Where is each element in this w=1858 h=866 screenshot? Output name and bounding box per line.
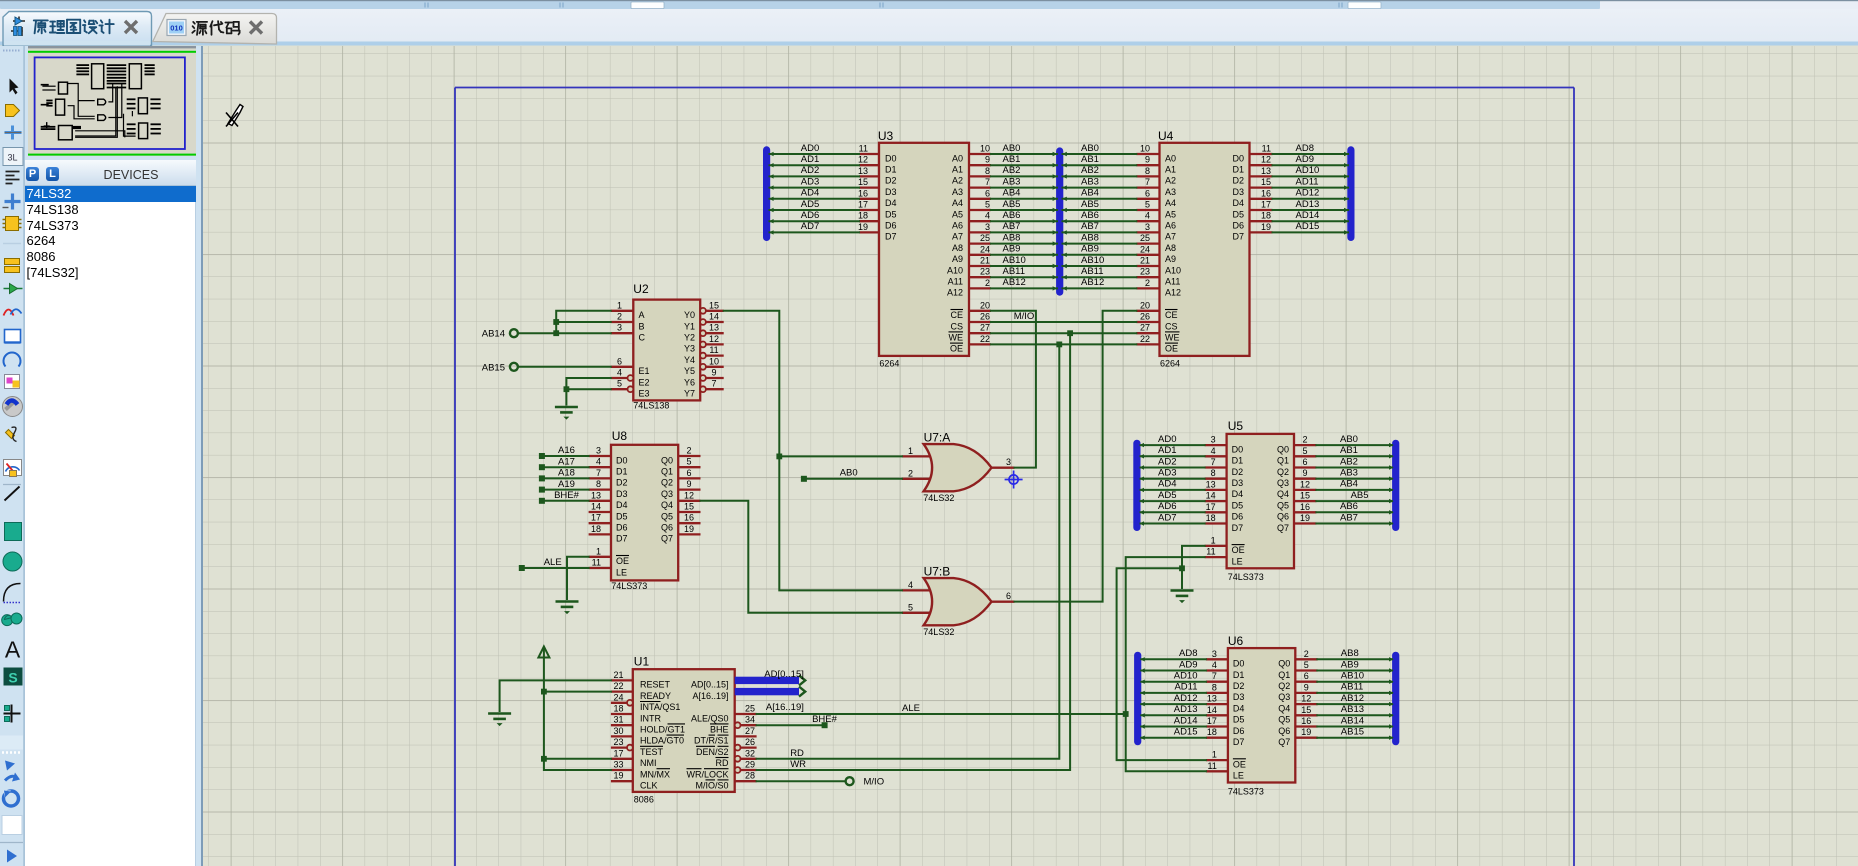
wire AB3 U3 side <box>991 186 1057 188</box>
svg-text:AB3: AB3 <box>1340 467 1358 478</box>
wire U5 Q7 to AB7 <box>1316 522 1392 524</box>
svg-text:A8: A8 <box>1165 242 1176 252</box>
svg-text:E1: E1 <box>639 366 650 376</box>
wire AB12 U3 side <box>991 287 1057 289</box>
svg-text:27: 27 <box>745 725 755 735</box>
svg-text:AD7: AD7 <box>801 221 819 232</box>
svg-text:AD14: AD14 <box>1296 210 1320 221</box>
wire AD7 U3 <box>770 231 860 233</box>
wire BHE# from U1 <box>757 724 825 726</box>
svg-text:U7:A: U7:A <box>924 430 951 444</box>
svg-text:AB5: AB5 <box>1081 198 1099 209</box>
wire AB3 U4 side <box>1063 186 1137 188</box>
wire AB4 U4 side <box>1063 197 1137 199</box>
wire AD1 U3 <box>770 164 860 166</box>
svg-text:6264: 6264 <box>1160 358 1180 368</box>
svg-text:5: 5 <box>1302 445 1307 455</box>
svg-text:Q5: Q5 <box>1278 714 1290 724</box>
wire A16 to U8 <box>542 455 589 457</box>
svg-text:BHE: BHE <box>710 724 729 734</box>
IC U6 74LS373 latch <box>1206 634 1318 796</box>
svg-text:A5: A5 <box>1165 209 1176 219</box>
svg-text:4: 4 <box>985 210 990 220</box>
svg-text:Q0: Q0 <box>661 455 673 465</box>
svg-text:3: 3 <box>617 322 622 332</box>
svg-text:74LS373: 74LS373 <box>1228 786 1264 796</box>
svg-text:14: 14 <box>1206 490 1216 500</box>
svg-text:D0: D0 <box>616 455 628 465</box>
svg-text:10: 10 <box>709 356 719 366</box>
preview Y0 wire <box>68 84 95 117</box>
svg-text:A10: A10 <box>947 265 963 275</box>
wire AD2 to U5 <box>1141 466 1205 468</box>
svg-text:AB12: AB12 <box>1081 277 1104 288</box>
svg-text:Q3: Q3 <box>661 488 673 498</box>
svg-text:A6: A6 <box>1165 220 1176 230</box>
svg-text:Y2: Y2 <box>684 332 695 342</box>
svg-text:OE: OE <box>1232 545 1245 555</box>
svg-text:AD9: AD9 <box>1179 659 1197 670</box>
wire ALE from U1 <box>757 713 1126 715</box>
wire AB6 U4 side <box>1063 220 1137 222</box>
svg-text:2: 2 <box>908 468 913 478</box>
svg-text:D4: D4 <box>616 500 628 510</box>
svg-text:AB3: AB3 <box>1003 176 1021 187</box>
svg-text:D0: D0 <box>1232 153 1244 163</box>
svg-text:22: 22 <box>980 333 990 343</box>
svg-text:15: 15 <box>684 501 694 511</box>
wire AB2 U3 side <box>991 175 1057 177</box>
bus U6 left AD bus <box>1134 655 1141 741</box>
preview pane background <box>25 46 200 160</box>
svg-text:7: 7 <box>1145 177 1150 187</box>
svg-text:4: 4 <box>1211 445 1216 455</box>
svg-text:CE: CE <box>951 310 964 320</box>
wire AB12 U4 side <box>1063 287 1137 289</box>
wire AD14 U4 <box>1273 220 1349 222</box>
wire U6 Q4 to AB12 <box>1317 703 1392 705</box>
svg-text:13: 13 <box>858 165 868 175</box>
wire AB5 U3 side <box>991 209 1057 211</box>
svg-text:AD4: AD4 <box>801 187 819 198</box>
svg-text:19: 19 <box>1300 513 1310 523</box>
wire AB4 U3 side <box>991 197 1057 199</box>
device list item 74LS373 <box>27 218 196 234</box>
svg-text:U8: U8 <box>612 428 628 442</box>
svg-text:AB4: AB4 <box>1003 187 1021 198</box>
svg-text:D0: D0 <box>885 153 897 163</box>
preview AB15 wire <box>42 89 55 91</box>
svg-text:9: 9 <box>1304 682 1309 692</box>
svg-text:12: 12 <box>858 154 868 164</box>
svg-text:26: 26 <box>745 737 755 747</box>
svg-text:18: 18 <box>1207 727 1217 737</box>
device list item 8086 <box>27 249 196 265</box>
svg-text:AB0: AB0 <box>1081 142 1099 153</box>
svg-text:Q7: Q7 <box>1278 737 1290 747</box>
svg-text:2: 2 <box>686 445 691 455</box>
svg-text:U4: U4 <box>1158 128 1174 142</box>
wire AD6 to U5 <box>1141 511 1205 513</box>
svg-text:12: 12 <box>684 490 694 500</box>
wire U5 Q6 to AB6 <box>1316 511 1392 513</box>
svg-text:2: 2 <box>1304 648 1309 658</box>
svg-text:D1: D1 <box>1232 164 1244 174</box>
svg-text:Q4: Q4 <box>1277 489 1289 499</box>
IC U3 6264 RAM <box>858 128 991 368</box>
svg-text:B: B <box>639 321 645 331</box>
svg-text:WR/LOCK: WR/LOCK <box>687 769 729 779</box>
wire OE net <box>991 343 1136 345</box>
wire AB9 U4 side <box>1063 253 1137 255</box>
junction Y0 branch <box>776 453 782 459</box>
svg-text:A18: A18 <box>558 467 575 478</box>
svg-text:5: 5 <box>1304 660 1309 670</box>
wire AB0 U4 side <box>1063 153 1137 155</box>
svg-text:AB0: AB0 <box>840 467 858 478</box>
svg-text:2: 2 <box>1302 434 1307 444</box>
svg-text:24: 24 <box>613 692 623 702</box>
svg-text:20: 20 <box>1140 300 1150 310</box>
svg-text:D7: D7 <box>1232 522 1244 532</box>
svg-text:Q7: Q7 <box>1277 522 1289 532</box>
wire READY branch <box>544 690 611 692</box>
svg-text:U1: U1 <box>634 654 650 668</box>
svg-text:D3: D3 <box>1233 692 1245 702</box>
svg-text:6: 6 <box>1145 188 1150 198</box>
ground U2 enable gnd <box>555 405 578 408</box>
svg-text:5: 5 <box>686 456 691 466</box>
preview U6 left wires <box>127 123 136 125</box>
svg-text:2: 2 <box>1145 277 1150 287</box>
terminal AB14 <box>510 329 518 337</box>
svg-text:Q3: Q3 <box>1277 478 1289 488</box>
svg-text:12: 12 <box>1300 479 1310 489</box>
svg-text:AB2: AB2 <box>1003 165 1021 176</box>
wire AD5 to U5 <box>1141 500 1205 502</box>
node tap AB0 <box>801 475 807 481</box>
svg-text:Q6: Q6 <box>1278 725 1290 735</box>
svg-text:A0: A0 <box>952 153 963 163</box>
svg-text:17: 17 <box>1206 501 1216 511</box>
svg-text:12: 12 <box>1301 693 1311 703</box>
svg-text:MN/MX: MN/MX <box>640 769 670 779</box>
preview U2 <box>59 82 68 94</box>
svg-text:AD2: AD2 <box>1158 456 1176 467</box>
svg-text:A12: A12 <box>947 287 963 297</box>
svg-text:A11: A11 <box>948 276 963 286</box>
wire AB8 U4 side <box>1063 242 1137 244</box>
svg-text:NMI: NMI <box>640 758 657 768</box>
svg-text:A3: A3 <box>952 186 963 196</box>
svg-text:12: 12 <box>709 333 719 343</box>
preview U1 left wires <box>41 126 56 128</box>
svg-text:AB9: AB9 <box>1081 243 1099 254</box>
svg-text:D0: D0 <box>1232 444 1244 454</box>
svg-text:Y7: Y7 <box>684 388 695 398</box>
svg-text:9: 9 <box>711 367 716 377</box>
svg-text:D7: D7 <box>885 231 897 241</box>
svg-text:A9: A9 <box>952 254 963 264</box>
left mode toolbar <box>0 46 25 866</box>
svg-text:15: 15 <box>1301 704 1311 714</box>
svg-text:CLK: CLK <box>640 780 658 790</box>
svg-text:4: 4 <box>1212 660 1217 670</box>
svg-text:AB9: AB9 <box>1003 243 1021 254</box>
svg-text:AD12: AD12 <box>1296 187 1320 198</box>
svg-text:A: A <box>639 310 645 320</box>
wire AD2 U3 <box>770 175 860 177</box>
wire WR net <box>757 333 1071 770</box>
svg-text:AB7: AB7 <box>1340 512 1358 523</box>
svg-text:AB5: AB5 <box>1003 198 1021 209</box>
svg-text:16: 16 <box>684 512 694 522</box>
svg-text:AD4: AD4 <box>1158 478 1176 489</box>
svg-text:14: 14 <box>709 311 719 321</box>
wire AD4 U3 <box>770 197 860 199</box>
svg-text:D2: D2 <box>1232 466 1244 476</box>
device list <box>25 186 196 866</box>
svg-text:Y1: Y1 <box>684 321 695 331</box>
svg-text:D2: D2 <box>885 175 897 185</box>
preview U6 <box>139 123 148 139</box>
wire U5 Q1 to AB1 <box>1316 455 1392 457</box>
svg-text:5: 5 <box>1145 199 1150 209</box>
wire AB9 U3 side <box>991 253 1057 255</box>
svg-text:15: 15 <box>1261 177 1271 187</box>
wire AD11 U4 <box>1273 186 1349 188</box>
wire U4 CE to U7:B output <box>1015 310 1137 601</box>
svg-text:21: 21 <box>613 669 623 679</box>
wire U5 Q0 to AB0 <box>1316 444 1392 446</box>
svg-text:AB2: AB2 <box>1081 165 1099 176</box>
junction A/B/C j1 <box>553 319 559 325</box>
svg-text:AB9: AB9 <box>1341 659 1359 670</box>
preview U5 left wires <box>127 98 136 100</box>
junction A/B/C j2 <box>553 330 559 336</box>
svg-text:AB7: AB7 <box>1003 221 1021 232</box>
svg-text:23: 23 <box>980 266 990 276</box>
preview gnd wire <box>131 111 133 116</box>
wire AB1 U3 side <box>991 164 1057 166</box>
wire AB5 U4 side <box>1063 209 1137 211</box>
svg-text:8: 8 <box>985 165 990 175</box>
wire VCC to READY/NMI/MNMX <box>544 648 611 770</box>
svg-text:28: 28 <box>745 770 755 780</box>
wire AB7 U3 side <box>991 231 1057 233</box>
OR gate U7:A 74LS32 <box>902 430 1015 503</box>
svg-text:M/IO: M/IO <box>1014 310 1035 321</box>
svg-text:15: 15 <box>709 300 719 310</box>
svg-text:A6: A6 <box>952 220 963 230</box>
svg-text:D1: D1 <box>1232 455 1244 465</box>
svg-text:AB1: AB1 <box>1340 445 1358 456</box>
svg-text:RESET: RESET <box>640 679 671 689</box>
svg-text:AB6: AB6 <box>1003 210 1021 221</box>
preview U3 <box>92 64 104 89</box>
svg-text:E2: E2 <box>639 377 650 387</box>
svg-text:4: 4 <box>1145 210 1150 220</box>
wire AB11 U3 side <box>991 276 1057 278</box>
wire AD1 to U5 <box>1141 455 1205 457</box>
svg-text:17: 17 <box>1207 716 1217 726</box>
wire U2 B input <box>556 321 611 323</box>
junction ALE/LE j <box>1123 711 1129 717</box>
wire U8 OE to gnd <box>567 556 589 598</box>
wire AB0 U3 side <box>991 153 1057 155</box>
svg-text:WR: WR <box>790 759 806 770</box>
wire U5 Q2 to AB2 <box>1316 466 1392 468</box>
svg-text:AB11: AB11 <box>1081 266 1104 277</box>
node tap BHE# <box>539 497 545 503</box>
preview CE wire B <box>108 84 121 118</box>
bus U5 right AB bus <box>1392 443 1399 527</box>
svg-text:Q2: Q2 <box>1278 681 1290 691</box>
svg-text:74LS32: 74LS32 <box>923 627 954 637</box>
svg-text:17: 17 <box>858 199 868 209</box>
svg-text:U7:B: U7:B <box>924 564 951 578</box>
wire AD8 to U6 <box>1141 658 1206 660</box>
svg-text:AB14: AB14 <box>482 328 505 339</box>
svg-text:D2: D2 <box>1233 681 1245 691</box>
bus U6 right AB bus <box>1392 655 1399 741</box>
svg-text:LE: LE <box>1232 556 1243 566</box>
svg-text:A11: A11 <box>1165 276 1180 286</box>
svg-text:Y3: Y3 <box>684 343 695 353</box>
wire AD13 U4 <box>1273 209 1349 211</box>
svg-text:26: 26 <box>1140 311 1150 321</box>
svg-text:D6: D6 <box>1232 511 1244 521</box>
svg-text:Q5: Q5 <box>661 511 673 521</box>
svg-text:23: 23 <box>613 737 623 747</box>
svg-text:5: 5 <box>908 602 913 612</box>
svg-text:AD8: AD8 <box>1296 142 1314 153</box>
svg-text:A: A <box>5 636 21 662</box>
svg-text:D5: D5 <box>1232 209 1244 219</box>
svg-text:AD1: AD1 <box>801 154 819 165</box>
svg-text:AD6: AD6 <box>1158 501 1176 512</box>
svg-text:INTR: INTR <box>640 713 661 723</box>
svg-text:26: 26 <box>980 311 990 321</box>
bus AB0..AB12 bus (U3-U4) <box>1056 151 1063 292</box>
svg-text:LE: LE <box>1233 770 1244 780</box>
svg-text:RD: RD <box>790 747 804 758</box>
svg-text:ALE: ALE <box>544 557 562 568</box>
wire U5 Q5 to AB5 <box>1316 500 1392 502</box>
wire U6 Q2 to AB10 <box>1317 680 1392 682</box>
svg-text:D6: D6 <box>1233 725 1245 735</box>
device list selected item 74LS32 <box>25 186 196 202</box>
svg-text:11: 11 <box>1206 546 1215 556</box>
svg-text:23: 23 <box>1140 266 1150 276</box>
svg-text:AD[0..15]: AD[0..15] <box>691 679 729 689</box>
svg-text:13: 13 <box>591 490 601 500</box>
svg-text:AD0: AD0 <box>1158 433 1176 444</box>
svg-text:AB11: AB11 <box>1003 266 1026 277</box>
svg-text:Y0: Y0 <box>684 310 695 320</box>
svg-text:22: 22 <box>1140 333 1150 343</box>
wire U6 Q1 to AB9 <box>1317 669 1392 671</box>
svg-text:15: 15 <box>1300 490 1310 500</box>
wire AB10 U4 side <box>1063 265 1137 267</box>
svg-text:30: 30 <box>613 725 623 735</box>
svg-text:D4: D4 <box>1233 703 1245 713</box>
svg-text:11: 11 <box>1208 760 1217 770</box>
svg-text:18: 18 <box>591 523 601 533</box>
svg-text:D0: D0 <box>1233 658 1245 668</box>
svg-text:13: 13 <box>709 322 719 332</box>
wire AD9 U4 <box>1273 164 1349 166</box>
svg-text:10: 10 <box>1140 143 1150 153</box>
svg-text:6264: 6264 <box>879 358 899 368</box>
preview gate A <box>98 99 106 105</box>
svg-text:A16: A16 <box>558 445 575 456</box>
wire U6 Q0 to AB8 <box>1317 658 1392 660</box>
svg-text:OE: OE <box>1233 759 1246 769</box>
svg-text:7: 7 <box>1212 671 1217 681</box>
svg-text:9: 9 <box>1302 468 1307 478</box>
IC U4 6264 RAM <box>1136 128 1272 368</box>
svg-text:READY: READY <box>640 690 671 700</box>
svg-text:D1: D1 <box>616 466 628 476</box>
wire AD15 U4 <box>1273 231 1349 233</box>
svg-text:34: 34 <box>745 714 755 724</box>
svg-text:6: 6 <box>1006 591 1011 601</box>
svg-text:Y5: Y5 <box>684 366 695 376</box>
wire U6 Q3 to AB11 <box>1317 691 1392 693</box>
preview U6 right wires <box>151 123 161 125</box>
wire AD14 to U6 <box>1141 725 1206 727</box>
svg-text:AD10: AD10 <box>1296 165 1320 176</box>
svg-text:29: 29 <box>745 759 755 769</box>
svg-text:32: 32 <box>745 748 755 758</box>
node tap A17 <box>539 464 545 470</box>
wire AD9 to U6 <box>1141 669 1206 671</box>
preview WR wire <box>75 86 117 137</box>
wire U2 E3 <box>566 388 610 390</box>
svg-text:74LS373: 74LS373 <box>1228 572 1264 582</box>
svg-text:A4: A4 <box>952 198 963 208</box>
svg-text:8: 8 <box>1145 165 1150 175</box>
bus AD[0..15] bus from U1 <box>735 676 799 683</box>
wire U8 Q4 to U7:B pin5 <box>701 500 902 612</box>
svg-text:1: 1 <box>617 300 622 310</box>
svg-text:Q1: Q1 <box>661 466 673 476</box>
svg-text:9: 9 <box>686 479 691 489</box>
wire A18 to U8 <box>542 477 589 479</box>
svg-text:7: 7 <box>1211 457 1216 467</box>
svg-text:A7: A7 <box>952 231 963 241</box>
wire ALE to U8 LE <box>522 567 589 569</box>
svg-text:74LS32: 74LS32 <box>923 493 954 503</box>
svg-text:17: 17 <box>613 748 623 758</box>
svg-text:3: 3 <box>1212 648 1217 658</box>
svg-text:D6: D6 <box>885 220 897 230</box>
terminal AB15 <box>510 362 518 370</box>
svg-text:25: 25 <box>980 233 990 243</box>
preview Q4 wire <box>68 106 95 119</box>
svg-text:DT/R/S1: DT/R/S1 <box>694 735 729 745</box>
ground U8 OE gnd <box>556 600 579 603</box>
preview RD wire <box>75 88 116 137</box>
svg-text:D1: D1 <box>885 164 897 174</box>
svg-text:AB13: AB13 <box>1341 704 1364 715</box>
wire AB0 to U7:A pin2 <box>804 477 902 479</box>
junction E2/E3 <box>564 386 570 392</box>
wire AB10 U3 side <box>991 265 1057 267</box>
svg-text:A2: A2 <box>1165 175 1176 185</box>
preview AD bus wires U3 <box>76 64 89 66</box>
